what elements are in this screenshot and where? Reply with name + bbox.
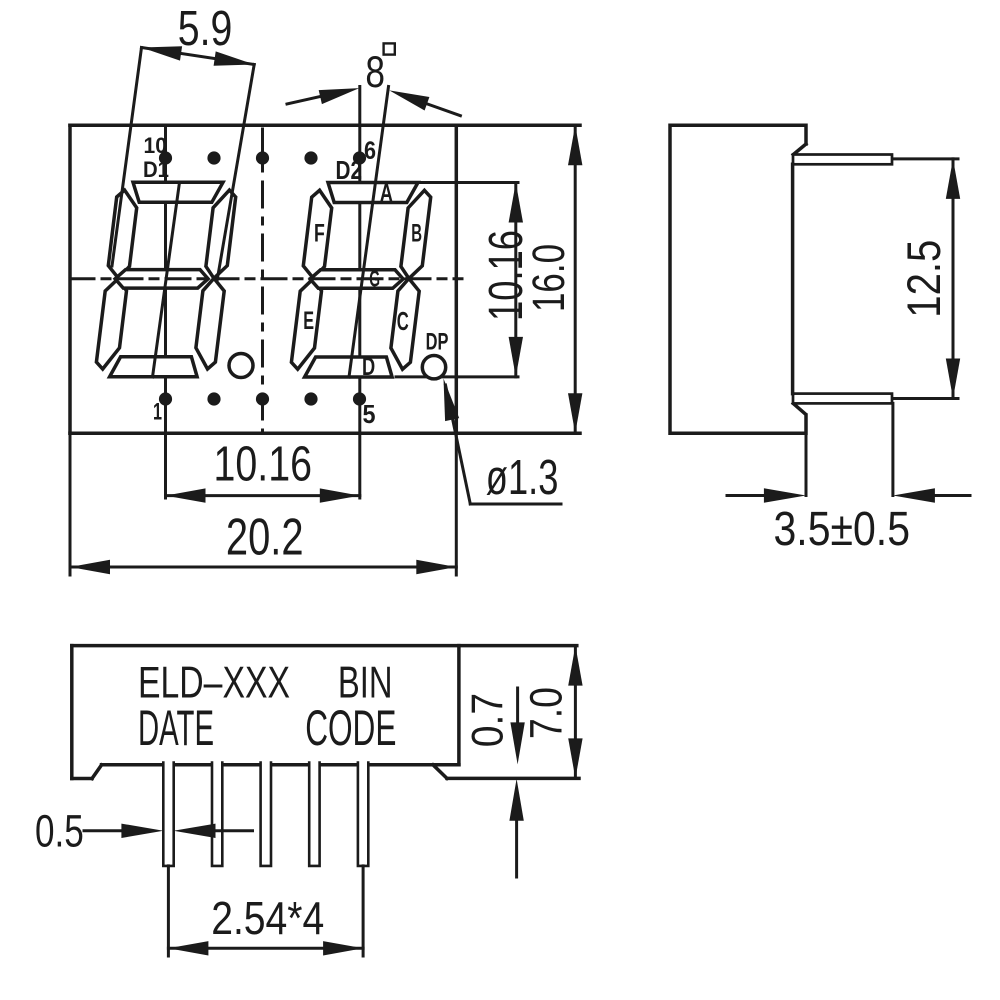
segment F of D2 — [303, 190, 331, 278]
text DATE — [138, 700, 214, 756]
DP circle of D2 — [422, 356, 445, 379]
segment label F — [314, 220, 325, 248]
dim 10.16h line — [166, 494, 360, 497]
dim text 8 — [365, 47, 385, 97]
segment E of D2 — [291, 279, 321, 370]
DP circle of D1 — [229, 354, 253, 378]
bottom view top edge (with 7.0 extension) — [72, 644, 577, 648]
pin 5 lead (bottom view) — [358, 763, 368, 866]
dim 5.9 extension line right — [217, 65, 254, 282]
segment C of D2 — [391, 279, 419, 370]
segment label B — [411, 220, 422, 248]
text CODE — [305, 700, 396, 756]
dim 12.5 arrow bottom — [946, 359, 960, 399]
dim 0.5 arrow left — [84, 824, 163, 838]
segment D of D1 — [110, 357, 198, 377]
svg-text:1: 1 — [153, 399, 162, 426]
segment label D — [362, 353, 375, 381]
dim dia1.3 arrow — [444, 379, 460, 422]
dim 20.2 arrow left — [70, 560, 110, 574]
dim 3.5 arrow left — [727, 488, 806, 502]
dim 0.5 text — [35, 805, 84, 856]
front view outline bottom edge (with 16.0 extension) — [70, 431, 580, 435]
bottom view right edge — [457, 646, 461, 765]
bottom view right chamfer — [433, 765, 447, 779]
pin label 5 — [363, 401, 376, 429]
dim text 2.54*4 — [211, 892, 324, 944]
svg-text:8: 8 — [365, 47, 385, 97]
dim dia1.3 leader line — [446, 385, 562, 504]
dim 7.0 arrow top — [568, 646, 582, 686]
dim 3.5 extension right (rim edge) — [891, 403, 894, 495]
svg-text:DP: DP — [426, 329, 449, 356]
svg-text:D: D — [362, 353, 375, 381]
dim 20.2 extension left — [69, 433, 72, 575]
svg-text:7.0: 7.0 — [521, 687, 572, 739]
svg-text:2.54*4: 2.54*4 — [211, 892, 324, 944]
svg-text:G: G — [369, 266, 380, 292]
dim 10.16v line — [514, 183, 517, 377]
dim text 7.0 — [521, 687, 572, 739]
dim 12.5 line — [952, 159, 955, 399]
svg-text:C: C — [397, 306, 409, 336]
pin label 6 — [364, 137, 376, 165]
dim 10.16v arrow top — [509, 183, 523, 223]
label D2 — [336, 157, 363, 185]
dim 2.54*4 extension left — [167, 866, 170, 956]
pin 4 lead (bottom view) — [309, 763, 319, 866]
svg-text:D1: D1 — [143, 157, 169, 182]
pin 1 lead (bottom view) — [163, 763, 173, 866]
pin dots bottom row (pins 1..5) — [159, 392, 366, 405]
dim 7.0 line — [574, 646, 577, 779]
dim 20.2 arrow right — [416, 560, 456, 574]
dim 5.9 arrow left — [142, 46, 183, 60]
segment A of D2 — [328, 183, 418, 203]
segment F of D1 — [108, 190, 136, 278]
dim 5.9 arrow right — [214, 51, 255, 65]
front view outline right edge — [455, 125, 459, 433]
dim text 20.2 — [226, 508, 304, 566]
side view face top rim — [793, 155, 892, 165]
pin column line pins 5/6 (8-deg reference) — [358, 87, 361, 499]
dim 12.5 extension top — [894, 157, 959, 160]
dim 10.16h arrow left — [166, 488, 206, 502]
dim text dia 1.3 — [486, 451, 559, 505]
segment B of D1 — [206, 190, 236, 278]
svg-text:A: A — [380, 180, 393, 208]
vertical centerline — [261, 129, 264, 431]
dim 8deg arrow left — [287, 88, 359, 104]
svg-text:6: 6 — [364, 137, 376, 165]
svg-text:16.0: 16.0 — [523, 244, 574, 312]
dim 5.9 extension line left — [112, 48, 142, 267]
dim text 12.5 — [897, 240, 950, 318]
svg-text:0.5: 0.5 — [35, 805, 84, 856]
dim 2.54*4 line — [168, 947, 363, 950]
digit D1 (7-segment) — [96, 182, 235, 376]
svg-text:12.5: 12.5 — [897, 240, 950, 318]
dim 3.5 extension left (body edge) — [805, 415, 808, 496]
dim 16.0 arrow bottom — [568, 393, 582, 433]
segment D of D2 — [305, 357, 393, 377]
svg-text:0.7: 0.7 — [463, 693, 512, 747]
dim 0.5 arrow right — [174, 824, 253, 838]
pin 2 lead (bottom view) — [212, 763, 222, 866]
segment C of D1 — [196, 278, 224, 369]
svg-text:CODE: CODE — [305, 700, 396, 756]
svg-text:5.9: 5.9 — [178, 2, 233, 56]
dim text 10.16 vertical — [479, 230, 533, 321]
dim 20.2 extension right — [455, 433, 458, 575]
dim 12.5 extension bottom — [894, 397, 959, 400]
dim 2.54*4 arrow right — [323, 941, 363, 955]
dim 0.7 arrow bottom — [509, 779, 523, 877]
dim text 3.5+-0.5 — [774, 503, 911, 556]
svg-text:ø1.3: ø1.3 — [486, 451, 559, 505]
text ELD-XXX — [138, 659, 290, 708]
pin dots top row (pins 10..6) — [159, 151, 366, 164]
segment label A — [380, 180, 393, 208]
dim 8 degree square — [384, 43, 395, 54]
dim text 10.16 horizontal — [214, 438, 313, 492]
dim 16.0 arrow top — [568, 125, 582, 165]
pin label 1 — [153, 399, 162, 426]
svg-text:F: F — [314, 220, 325, 248]
svg-text:10: 10 — [144, 133, 167, 158]
dim 10.16h arrow right — [320, 488, 360, 502]
segment label G — [369, 266, 380, 292]
side view face bottom rim — [793, 394, 892, 404]
segment G of D2 — [310, 270, 403, 289]
side view body outline — [670, 125, 806, 433]
segment label E — [303, 307, 314, 335]
front view outline left edge — [68, 125, 72, 433]
bottom view left edge — [70, 646, 74, 779]
svg-text:E: E — [303, 307, 314, 335]
svg-text:20.2: 20.2 — [226, 508, 304, 566]
dim 2.54*4 extension right — [362, 866, 365, 956]
svg-text:3.5±0.5: 3.5±0.5 — [774, 503, 911, 556]
pin label 10 — [144, 133, 167, 158]
svg-text:D2: D2 — [336, 157, 363, 185]
digit D2 slant axis (8-deg line) — [349, 87, 389, 378]
svg-text:DATE: DATE — [138, 700, 214, 756]
label D1 — [143, 157, 169, 182]
bottom view bottom edge — [102, 763, 459, 767]
dim 10.16v arrow bottom — [509, 337, 523, 377]
dim text 5.9 — [178, 2, 233, 56]
dim 10.16v extension bottom — [396, 375, 518, 378]
horizontal centerline — [70, 277, 462, 280]
dim 3.5 arrow right — [893, 488, 970, 502]
dim text 16.0 — [523, 244, 574, 312]
digit D1 slant axis — [153, 182, 180, 377]
dim 5.9 line — [142, 48, 255, 65]
svg-text:B: B — [411, 220, 422, 248]
bottom view left chamfer — [92, 765, 102, 779]
dim 8deg arrow right — [389, 90, 460, 115]
bottom view left shelf — [72, 777, 92, 781]
svg-text:10.16: 10.16 — [214, 438, 313, 492]
dim 12.5 arrow top — [946, 159, 960, 199]
bottom view right shelf (0.7 extension) — [447, 777, 579, 781]
dim 16.0 line — [574, 125, 577, 433]
segment B of D2 — [401, 190, 431, 278]
dim 20.2 line — [70, 566, 456, 569]
dim 10.16v extension top — [420, 181, 518, 184]
dim 7.0 arrow bottom — [568, 738, 582, 778]
segment A of D1 — [133, 182, 223, 202]
text BIN — [338, 659, 393, 708]
segment label C — [397, 306, 409, 336]
segment label DP — [426, 329, 449, 356]
segment G of D1 — [115, 270, 208, 289]
pin 3 lead (bottom view) — [261, 763, 271, 866]
dim text 0.7 — [463, 693, 512, 747]
segment E of D1 — [96, 278, 126, 369]
dim 2.54*4 arrow left — [168, 941, 208, 955]
side view face front edge — [791, 164, 795, 393]
digit D2 (7-segment) — [291, 183, 430, 378]
svg-text:5: 5 — [363, 401, 376, 429]
front view outline top edge (with 16.0 extension) — [70, 123, 580, 127]
pin column line pins 1/10 — [164, 125, 167, 498]
dim 0.7 arrow top — [510, 688, 524, 764]
